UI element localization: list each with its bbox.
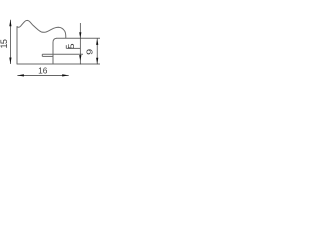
dimension 15 down arrow	[9, 58, 11, 65]
back slot left wall	[41, 54, 43, 56]
rabbet wall and fillet to ledge	[53, 38, 57, 64]
svg-text:15: 15	[0, 39, 9, 48]
svg-text:16: 16	[38, 66, 48, 76]
dimension 5 line	[79, 23, 81, 64]
dimension 16 right arrow	[62, 74, 68, 76]
dimension 16 left arrow	[17, 74, 24, 76]
dimension 9 up arrow	[96, 38, 98, 45]
profile top ogee contour	[17, 20, 66, 38]
lip underside step tick	[65, 45, 67, 48]
back slot top long line	[42, 53, 83, 55]
rabbet ledge line extended to right edge	[57, 37, 101, 39]
dimension 9 line	[96, 38, 98, 64]
dimension 5 upper down arrow	[79, 32, 81, 38]
lip underside line	[66, 47, 80, 49]
dimension 16 line	[17, 74, 68, 76]
svg-text:5: 5	[66, 43, 76, 49]
profile bottom edge	[17, 63, 101, 65]
back slot bottom	[42, 55, 53, 57]
dimension 5 lower down arrow	[79, 55, 81, 61]
svg-text:9: 9	[84, 49, 94, 55]
dimension 9 down arrow	[96, 58, 98, 64]
dimension 15 line	[9, 20, 11, 64]
dimension 15 up arrow	[9, 20, 11, 27]
profile left outer edge	[16, 26, 18, 64]
